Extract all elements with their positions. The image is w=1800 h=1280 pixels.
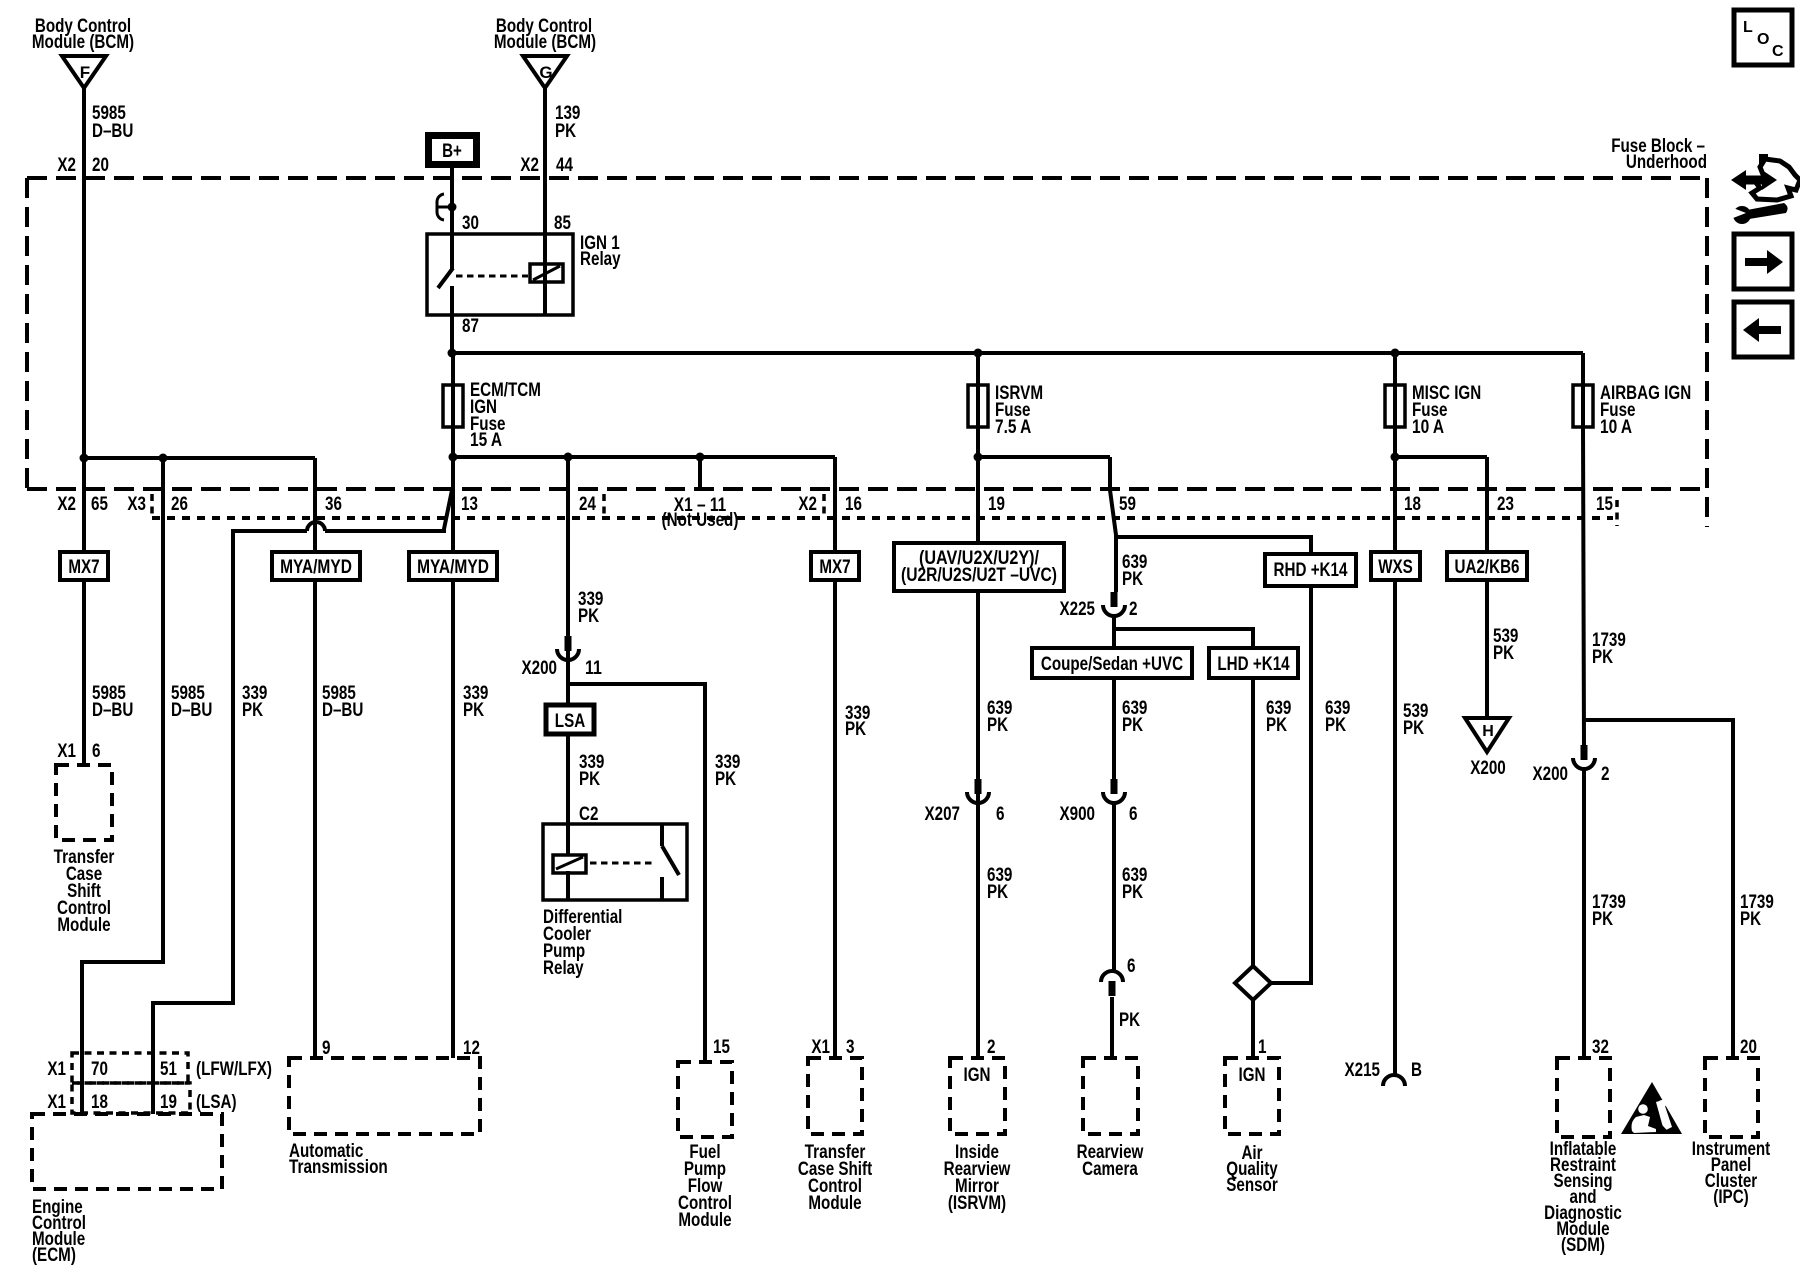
wire AIRBAG fuse down: [1583, 427, 1584, 747]
svg-text:C: C: [1772, 43, 1784, 60]
branch to IPC: [1584, 720, 1733, 1058]
svg-text:(U2R/U2S/U2T –UVC): (U2R/U2S/U2T –UVC): [901, 565, 1057, 586]
wire to camera: [1110, 997, 1114, 1058]
option box UA2/KB6: [1447, 552, 1527, 580]
svg-text:L: L: [1743, 19, 1753, 36]
svg-text:(ECM): (ECM): [32, 1245, 76, 1266]
splice X200 pin 2: [1573, 745, 1595, 769]
relay IGN 1 box: [427, 234, 573, 315]
svg-text:PK: PK: [1592, 909, 1613, 930]
svg-text:16: 16: [845, 494, 862, 515]
module Instrument Panel Cluster box: [1705, 1058, 1758, 1137]
pump relay switch: [662, 824, 679, 900]
wire RHD down: [1270, 586, 1311, 983]
svg-text:(IPC): (IPC): [1713, 1187, 1749, 1208]
wire bus to MISC IGN fuse: [1393, 353, 1397, 385]
svg-text:IGN: IGN: [1239, 1065, 1266, 1086]
svg-text:MYA/MYD: MYA/MYD: [280, 557, 352, 578]
svg-text:51: 51: [160, 1059, 177, 1080]
svg-text:MYA/MYD: MYA/MYD: [417, 557, 489, 578]
wire 139 PK from BCM G: [543, 88, 547, 264]
svg-text:32: 32: [1592, 1037, 1609, 1058]
svg-text:O: O: [1757, 31, 1769, 48]
junction at 700,457: [696, 453, 705, 462]
svg-text:X225: X225: [1060, 599, 1096, 620]
svg-text:2: 2: [987, 1037, 996, 1058]
svg-text:(LFW/LFX): (LFW/LFX): [196, 1059, 272, 1080]
svg-text:LSA: LSA: [555, 711, 586, 732]
svg-text:44: 44: [556, 155, 573, 176]
svg-text:20: 20: [1740, 1037, 1757, 1058]
pump relay actuator dashed link: [590, 862, 655, 865]
svg-text:18: 18: [1404, 494, 1421, 515]
svg-text:PK: PK: [578, 606, 599, 627]
svg-text:18: 18: [91, 1092, 108, 1113]
svg-text:Module (BCM): Module (BCM): [32, 32, 134, 53]
svg-text:6: 6: [1127, 956, 1136, 977]
svg-text:PK: PK: [1403, 718, 1424, 739]
svg-text:C2: C2: [579, 804, 598, 825]
junction at 84,458: [80, 454, 89, 463]
svg-text:PK: PK: [987, 882, 1008, 903]
wire ISRVM down: [976, 457, 980, 1058]
svg-text:D–BU: D–BU: [92, 121, 133, 142]
wire WXS branch down: [1393, 457, 1397, 1075]
ECM connector row LSA: [72, 1083, 190, 1113]
svg-text:X1: X1: [57, 741, 76, 762]
svg-text:PK: PK: [463, 700, 484, 721]
svg-text:Module: Module: [678, 1210, 731, 1231]
svg-text:24: 24: [579, 494, 596, 515]
wire coupe/sedan down: [1112, 678, 1116, 779]
wire B+ to relay pin 30: [450, 168, 454, 234]
connector triangle H: [1465, 718, 1509, 752]
svg-text:X2: X2: [57, 494, 76, 515]
separator after 24: [602, 494, 606, 514]
relay Differential Cooler Pump box: [543, 824, 687, 900]
relay IGN 1 switch: [438, 234, 453, 315]
svg-text:D–BU: D–BU: [171, 700, 212, 721]
connector face dotted line: [152, 516, 1613, 520]
relay IGN 1 coil wire 85 inside: [543, 264, 547, 315]
option box WXS: [1371, 552, 1420, 580]
svg-text:PK: PK: [579, 769, 600, 790]
svg-text:(ISRVM): (ISRVM): [948, 1193, 1006, 1214]
svg-text:RHD +K14: RHD +K14: [1274, 560, 1348, 581]
module Air Quality Sensor box: [1225, 1058, 1279, 1134]
wire X900 down: [1112, 801, 1116, 970]
svg-text:X2: X2: [57, 155, 76, 176]
module Transfer Case Shift Control Module 1 box: [56, 765, 112, 840]
svg-text:PK: PK: [555, 121, 576, 142]
option box MYA/MYD 2: [409, 552, 497, 580]
svg-text:D–BU: D–BU: [92, 700, 133, 721]
svg-text:PK: PK: [987, 715, 1008, 736]
distribution ISRVM right: [978, 457, 1110, 490]
svg-text:12: 12: [463, 1038, 480, 1059]
icon LOC box: [1734, 10, 1792, 65]
splice X207 pin 6: [967, 779, 989, 803]
svg-text:36: 36: [325, 494, 342, 515]
svg-text:10 A: 10 A: [1412, 417, 1444, 438]
splice X200 pin 11: [557, 636, 579, 660]
svg-text:Coupe/Sedan +UVC: Coupe/Sedan +UVC: [1041, 654, 1184, 675]
svg-text:X1: X1: [47, 1059, 66, 1080]
module Transfer Case Shift Control Module 2 box: [808, 1058, 862, 1134]
svg-text:X207: X207: [925, 804, 961, 825]
svg-text:D–BU: D–BU: [322, 700, 363, 721]
junction at 978,457: [974, 453, 983, 462]
svg-text:3: 3: [846, 1037, 855, 1058]
fuse block underhood dashed outline: [27, 178, 1707, 527]
junction bus MISC IGN fuse: [1391, 349, 1400, 358]
wire pin 59 down: [1110, 490, 1116, 592]
svg-text:(LSA): (LSA): [196, 1092, 237, 1113]
junction at 453,457: [449, 453, 458, 462]
svg-text:MX7: MX7: [819, 557, 850, 578]
svg-text:2: 2: [1129, 599, 1138, 620]
ignition feed bus: [452, 351, 1583, 355]
wire 339 PK pin 13 down: [451, 457, 455, 1058]
svg-text:87: 87: [462, 316, 479, 337]
svg-text:13: 13: [461, 494, 478, 515]
svg-text:9: 9: [322, 1038, 331, 1059]
svg-text:Camera: Camera: [1082, 1159, 1138, 1180]
wire relay 87 to bus: [450, 315, 454, 353]
svg-text:X215: X215: [1345, 1060, 1381, 1081]
svg-text:PK: PK: [1493, 643, 1514, 664]
svg-text:Sensor: Sensor: [1226, 1175, 1278, 1196]
pump relay coil: [553, 855, 586, 873]
svg-text:7.5 A: 7.5 A: [995, 417, 1032, 438]
pump relay coil wire below: [566, 871, 570, 900]
svg-text:PK: PK: [1119, 1010, 1140, 1031]
svg-text:(SDM): (SDM): [1561, 1235, 1605, 1256]
wire X225 down: [1112, 614, 1116, 648]
fuse ECM/TCM IGN 15A: [443, 385, 463, 427]
ECM connector row LFW/LFX: [72, 1053, 188, 1083]
svg-text:15 A: 15 A: [470, 430, 502, 451]
branch to LHD: [1114, 629, 1253, 648]
svg-text:PK: PK: [1122, 882, 1143, 903]
svg-text:Module: Module: [57, 915, 110, 936]
junction at 568,457: [564, 453, 573, 462]
junction at 163,458: [159, 454, 168, 463]
inline connector pin 6 camera: [1101, 971, 1123, 996]
svg-text:59: 59: [1119, 494, 1136, 515]
svg-text:PK: PK: [1325, 715, 1346, 736]
svg-text:85: 85: [554, 213, 571, 234]
svg-text:MX7: MX7: [68, 557, 99, 578]
wire ECM/TCM fuse to distribution: [451, 427, 455, 457]
svg-text:B: B: [1411, 1060, 1422, 1081]
fuse block bottom dashed line: [27, 487, 1707, 491]
junction relay 87 bus: [448, 349, 457, 358]
svg-text:X1: X1: [811, 1037, 830, 1058]
option box RHD +K14: [1265, 554, 1356, 586]
icon arrow left box: [1734, 302, 1792, 357]
fuse MISC IGN 10A: [1385, 385, 1405, 427]
svg-text:Module (BCM): Module (BCM): [494, 32, 596, 53]
wire jog to fuel pump: [568, 684, 705, 1062]
separator X2 mid: [822, 494, 826, 514]
svg-text:2: 2: [1601, 764, 1610, 785]
wire bus to AIRBAG IGN fuse: [1581, 353, 1585, 385]
svg-text:X200: X200: [1533, 764, 1569, 785]
svg-text:Module: Module: [808, 1193, 861, 1214]
option box LHD +K14: [1209, 648, 1298, 678]
connector X215 pin B end: [1383, 1075, 1405, 1086]
svg-text:20: 20: [92, 155, 109, 176]
svg-text:6: 6: [996, 804, 1005, 825]
svg-text:B+: B+: [442, 141, 462, 162]
separator X3: [150, 494, 154, 514]
svg-text:Underhood: Underhood: [1626, 152, 1707, 173]
module Fuel Pump Flow Control Module box: [678, 1062, 732, 1137]
svg-text:Relay: Relay: [543, 958, 584, 979]
wire 5985 D-BU from BCM F: [82, 88, 86, 765]
branch to RHD: [1116, 537, 1311, 554]
svg-text:X2: X2: [798, 494, 817, 515]
junction diamond: [1235, 966, 1271, 1000]
module Automatic Transmission box: [289, 1058, 480, 1134]
svg-text:X2: X2: [520, 155, 539, 176]
option box MX7 left: [60, 552, 108, 580]
connector triangle G (BCM): [523, 56, 567, 88]
svg-text:F: F: [80, 63, 90, 82]
svg-text:H: H: [1482, 723, 1494, 740]
svg-text:6: 6: [1129, 804, 1138, 825]
svg-text:G: G: [539, 63, 552, 82]
stub X1-11 not used: [698, 457, 702, 487]
svg-text:PK: PK: [1266, 715, 1287, 736]
wire MISC fuse down: [1393, 427, 1397, 457]
relay IGN 1 actuator dashed link: [456, 275, 528, 278]
branch bus at 458: [84, 456, 315, 460]
svg-text:30: 30: [462, 213, 479, 234]
module Engine Control Module box: [32, 1114, 222, 1189]
junction at 1395,457: [1391, 453, 1400, 462]
airbag warning icon: [1621, 1082, 1682, 1134]
svg-text:WXS: WXS: [1378, 557, 1413, 578]
power feed B+: [429, 136, 477, 165]
wire 339 PK pin 13 to ECM: [153, 490, 452, 1114]
svg-text:PK: PK: [1122, 569, 1143, 590]
svg-text:19: 19: [988, 494, 1005, 515]
module Inside Rearview Mirror box: [950, 1058, 1005, 1134]
wire 5985 D-BU to ECM pin 70: [82, 458, 163, 1114]
option box Coupe/Sedan +UVC: [1032, 648, 1192, 678]
svg-text:23: 23: [1497, 494, 1514, 515]
wire bus to ISRVM fuse: [976, 353, 980, 385]
svg-text:1: 1: [1258, 1037, 1267, 1058]
svg-text:X200: X200: [1470, 758, 1506, 779]
svg-text:PK: PK: [1592, 647, 1613, 668]
svg-text:PK: PK: [1740, 909, 1761, 930]
svg-text:X3: X3: [127, 494, 146, 515]
wire LSA to pump relay: [566, 734, 570, 855]
option box MX7 right: [811, 552, 859, 580]
wire LHD down: [1251, 678, 1255, 1058]
module Rearview Camera box: [1083, 1058, 1138, 1134]
wire pin 24 branch down: [566, 457, 570, 705]
option box LSA: [546, 705, 594, 734]
svg-text:Transmission: Transmission: [289, 1157, 388, 1178]
svg-text:10 A: 10 A: [1600, 417, 1632, 438]
fuse AIRBAG IGN 10A: [1573, 385, 1593, 427]
separator after 15: [1615, 500, 1619, 526]
svg-text:(Not Used): (Not Used): [662, 510, 739, 531]
relay IGN 1 coil: [530, 264, 563, 282]
svg-text:PK: PK: [845, 719, 866, 740]
wire 5985 D-BU to automatic transmission: [313, 458, 317, 1058]
svg-text:LHD +K14: LHD +K14: [1217, 654, 1290, 675]
svg-text:Relay: Relay: [580, 249, 621, 270]
battery feed tap symbol: [437, 194, 457, 220]
svg-text:X200: X200: [522, 658, 558, 679]
wire SDM down: [1582, 767, 1586, 1058]
svg-text:15: 15: [713, 1037, 730, 1058]
splice X900 pin 6: [1103, 779, 1125, 803]
icon two-way hand: [1728, 154, 1800, 224]
svg-text:X1: X1: [47, 1092, 66, 1113]
svg-text:65: 65: [91, 494, 108, 515]
svg-text:11: 11: [585, 658, 602, 679]
svg-text:IGN: IGN: [964, 1065, 991, 1086]
option box MYA/MYD 1: [272, 552, 360, 580]
svg-text:X900: X900: [1060, 804, 1096, 825]
junction bus ISRVM fuse: [974, 349, 983, 358]
icon arrow right box: [1734, 234, 1792, 289]
svg-text:6: 6: [92, 741, 101, 762]
svg-text:UA2/KB6: UA2/KB6: [1455, 557, 1520, 578]
wire ISRVM fuse down: [976, 427, 980, 457]
svg-text:PK: PK: [1122, 715, 1143, 736]
connector triangle F (BCM): [62, 56, 106, 88]
fuse ISRVM 7.5A: [968, 385, 988, 427]
svg-text:70: 70: [91, 1059, 108, 1080]
module SDM box: [1557, 1058, 1610, 1137]
distribution MISC right: [1395, 457, 1487, 718]
wire pin 16 down: [833, 457, 837, 1058]
option box UAV/U2X/U2Y U2R/U2S/U2T-UVC: [894, 543, 1064, 591]
splice X225 pin 2: [1103, 592, 1125, 616]
svg-text:PK: PK: [715, 769, 736, 790]
distribution bus left: [453, 457, 835, 552]
svg-text:15: 15: [1596, 494, 1613, 515]
svg-text:19: 19: [160, 1092, 177, 1113]
svg-text:PK: PK: [242, 700, 263, 721]
svg-text:26: 26: [171, 494, 188, 515]
wire bus to ECM/TCM fuse: [451, 353, 455, 385]
